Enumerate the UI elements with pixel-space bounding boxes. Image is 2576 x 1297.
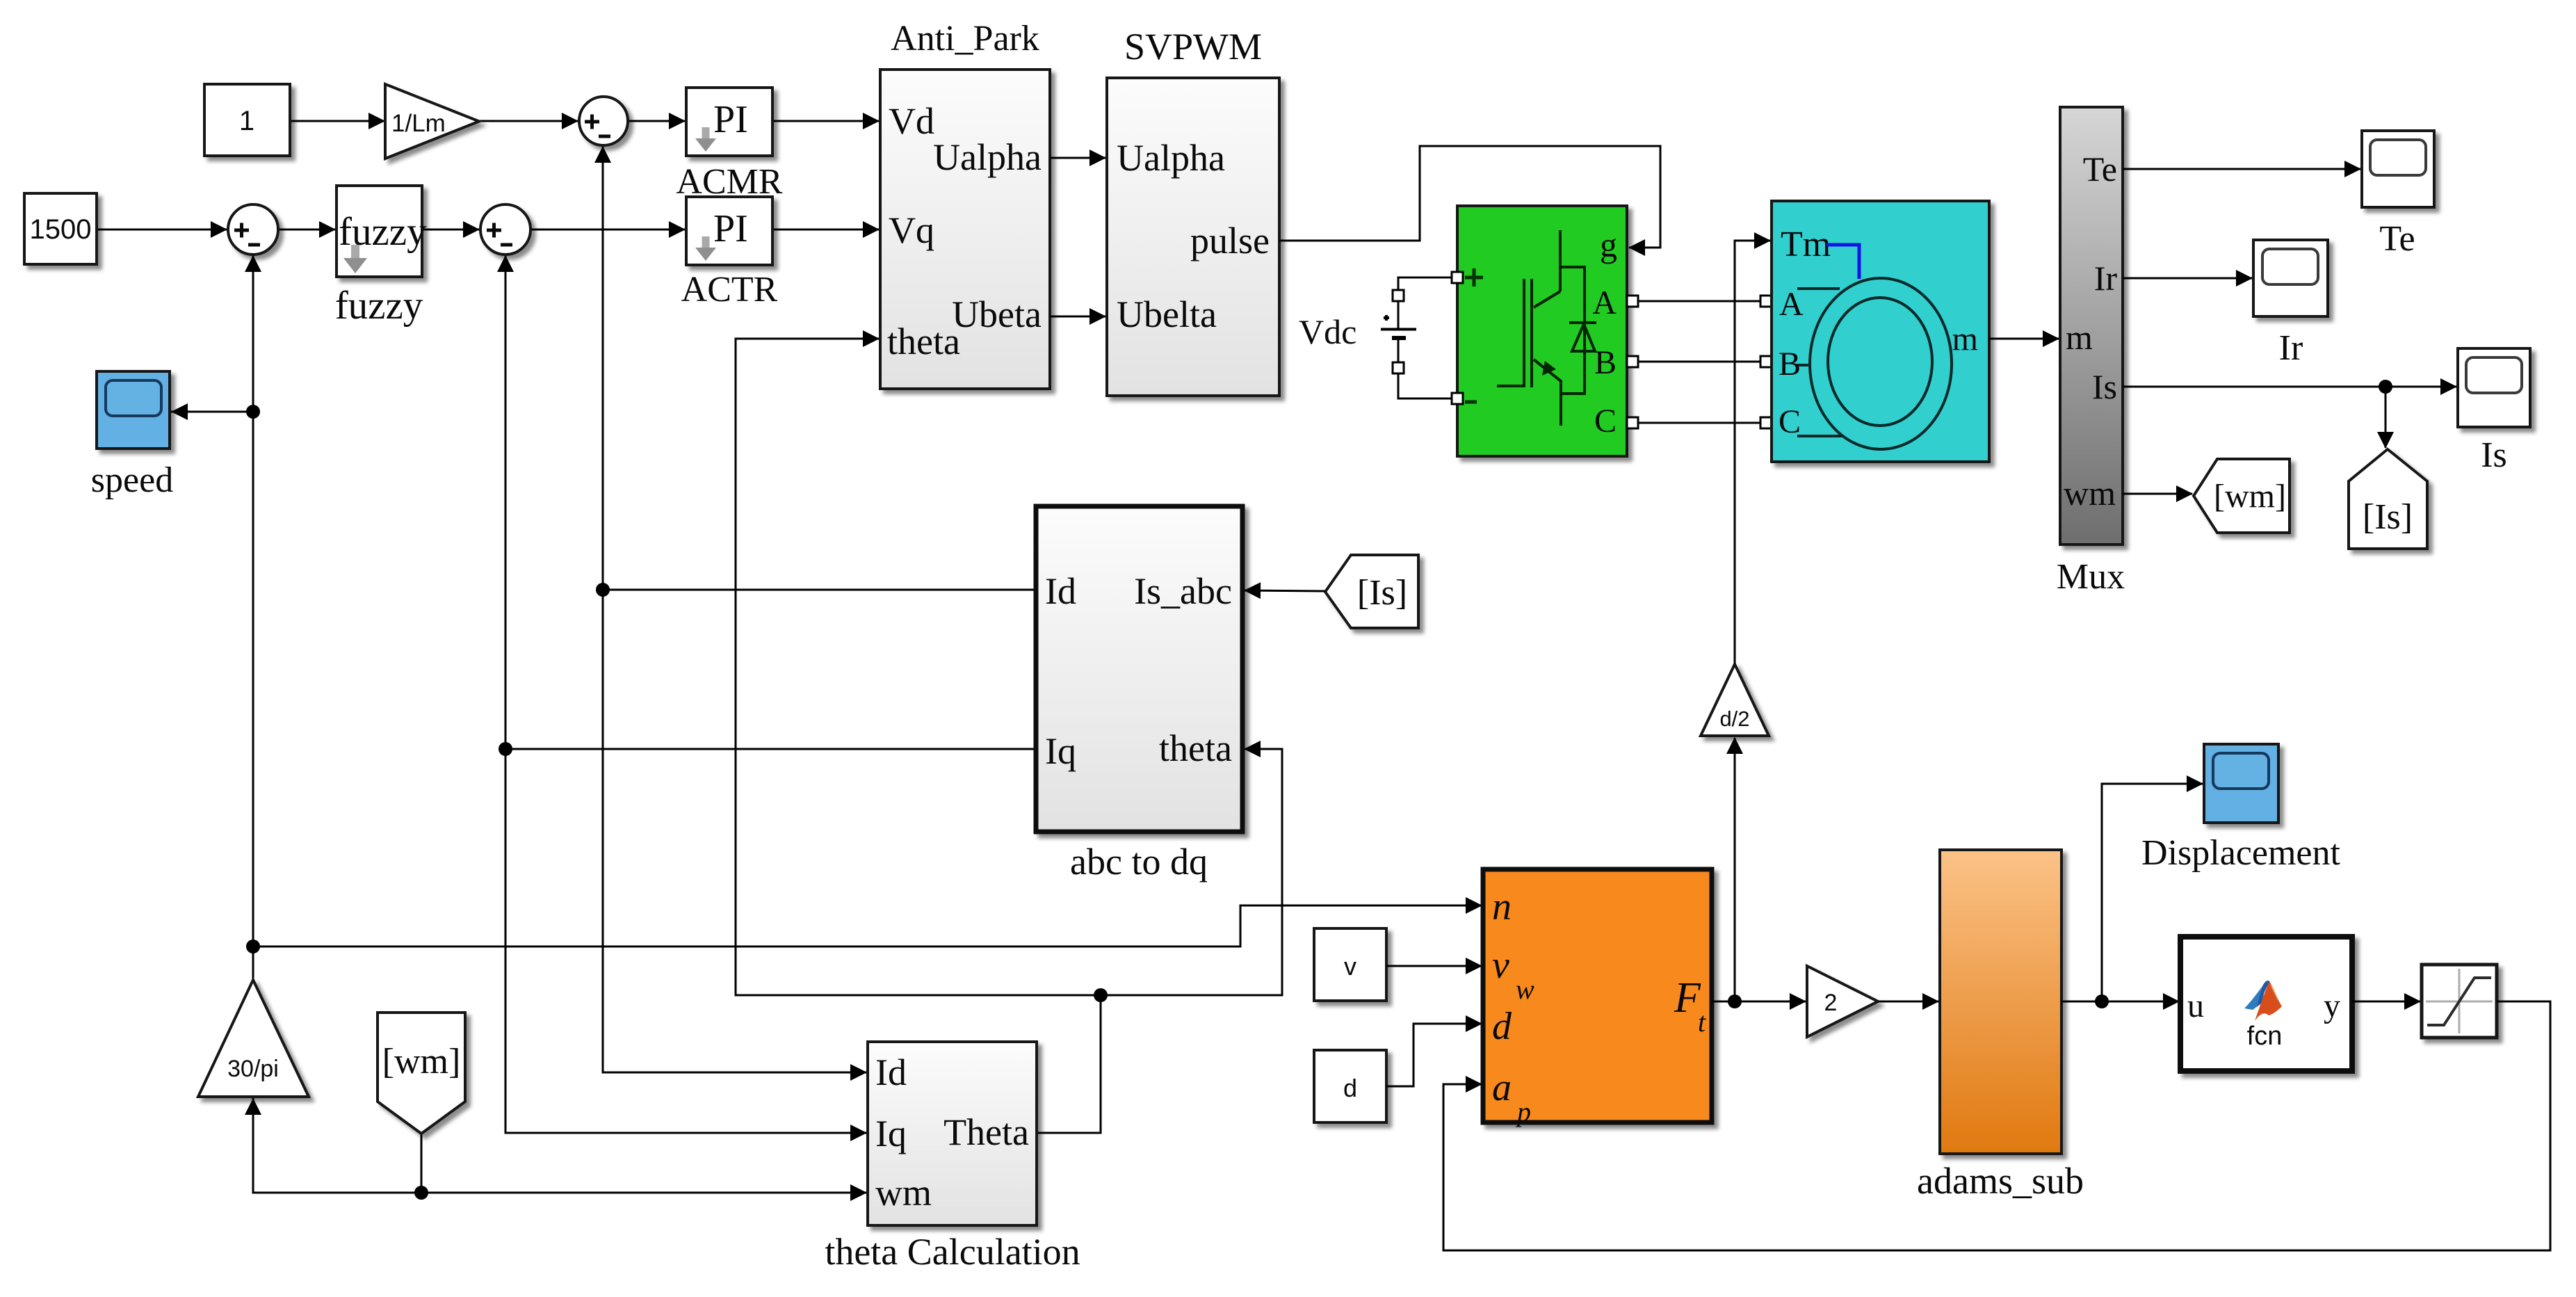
goto tag [Is] bbox=[2349, 449, 2427, 549]
wire motor m to Mux bbox=[1989, 338, 2059, 340]
wire Mux Is to scope Is bbox=[2123, 386, 2456, 388]
port square inverter - bbox=[1452, 393, 1463, 404]
ACMR down-arrow badge bbox=[695, 127, 716, 152]
svg-text:y: y bbox=[2324, 988, 2340, 1024]
wire d to orange d bbox=[1386, 1024, 1482, 1086]
svg-text:speed: speed bbox=[91, 460, 173, 500]
wire fuzzy to sum S3 bbox=[422, 229, 479, 231]
wire inverter A to motor A bbox=[1633, 300, 1760, 303]
IGBT emitter arrow bbox=[1542, 361, 1556, 376]
wire Iq branch to theta Calculation Iq bbox=[505, 1132, 866, 1134]
wire battery - to inverter bbox=[1398, 373, 1457, 398]
wire fcn to saturation bbox=[2352, 1001, 2420, 1003]
MATLAB function block fcn bbox=[2180, 937, 2352, 1071]
port square battery bottom bbox=[1393, 362, 1404, 373]
svg-text:Vq: Vq bbox=[889, 209, 934, 251]
svg-text:PI: PI bbox=[713, 98, 748, 141]
svg-text:Te: Te bbox=[2379, 219, 2415, 259]
wire sum S2 to fuzzy bbox=[280, 229, 335, 231]
svg-text:p: p bbox=[1515, 1096, 1531, 1127]
wire branch up to Displacement scope bbox=[2102, 784, 2203, 1001]
wire gain 1/Lm to sum S1 bbox=[479, 120, 578, 122]
svg-text:adams_sub: adams_sub bbox=[1917, 1160, 2084, 1202]
wire junction to speed scope bbox=[172, 411, 253, 413]
svg-text:B: B bbox=[1779, 346, 1801, 382]
motor phase lead B bbox=[1796, 364, 1808, 366]
svg-text:C: C bbox=[1594, 403, 1617, 440]
gain 1/Lm bbox=[385, 84, 479, 159]
wire d/2 output to motor Tm bbox=[1735, 241, 1770, 664]
svg-text:u: u bbox=[2187, 988, 2204, 1024]
svg-text:Ubelta: Ubelta bbox=[1117, 293, 1217, 335]
wire theta bus to abc_to_dq theta bbox=[1101, 749, 1282, 995]
svg-text:theta Calculation: theta Calculation bbox=[825, 1231, 1080, 1273]
subsystem Anti_Park bbox=[880, 70, 1050, 389]
svg-text:Theta: Theta bbox=[943, 1111, 1029, 1153]
wire wm junction to 30/pi input bbox=[253, 1099, 421, 1193]
sum S2 bbox=[228, 204, 278, 255]
svg-text:d: d bbox=[1492, 1005, 1512, 1048]
scope Displacement bbox=[2204, 744, 2278, 823]
svg-text:Ubeta: Ubeta bbox=[952, 293, 1042, 335]
wire inverter B to motor B bbox=[1633, 361, 1760, 363]
constant block 1500 bbox=[24, 193, 97, 264]
constant d bbox=[1314, 1050, 1386, 1122]
wire from tag [Is] to abc_to_dq Is_abc bbox=[1245, 590, 1325, 591]
from tag [wm] bbox=[378, 1013, 465, 1134]
scope Is bbox=[2458, 348, 2530, 427]
sum S1 bbox=[579, 97, 628, 145]
saturation curve bbox=[2427, 978, 2491, 1025]
svg-text:A: A bbox=[1779, 286, 1804, 323]
port squares motor inputs A B C bbox=[1760, 296, 1772, 307]
wire Mux Te to scope Te bbox=[2123, 168, 2360, 170]
constant v bbox=[1314, 928, 1386, 1001]
svg-text:Vdc: Vdc bbox=[1299, 312, 1356, 351]
battery Vdc bbox=[1381, 301, 1416, 363]
subsystem SVPWM bbox=[1107, 78, 1279, 396]
wire gain 2 to adams_sub bbox=[1878, 1001, 1938, 1003]
node n branch junction bbox=[246, 940, 260, 953]
motor stator outer ring bbox=[1810, 278, 1952, 449]
node wm junction bbox=[414, 1186, 428, 1200]
svg-text:PI: PI bbox=[713, 207, 748, 250]
wire Ft output to gain 2 bbox=[1712, 1001, 1806, 1003]
wire Anti_Park Ubeta to SVPWM bbox=[1050, 316, 1105, 318]
svg-text:abc to dq: abc to dq bbox=[1070, 841, 1208, 883]
svg-text:a: a bbox=[1492, 1066, 1512, 1109]
wire Iq feedback vertical to sum S3 bbox=[505, 256, 507, 1133]
svg-text:B: B bbox=[1594, 344, 1617, 381]
port square inverter + bbox=[1452, 272, 1463, 283]
wire const1 to gain 1/Lm bbox=[290, 120, 384, 122]
motor rotor inner ring bbox=[1828, 298, 1932, 426]
gain 2 bbox=[1807, 966, 1878, 1037]
svg-text:m: m bbox=[2066, 318, 2093, 357]
PI block ACMR bbox=[686, 88, 772, 156]
wire const 1500 to sum S2 bbox=[97, 229, 227, 231]
svg-text:Tm: Tm bbox=[1781, 225, 1831, 264]
svg-text:Id: Id bbox=[875, 1052, 907, 1093]
wire battery + to inverter bbox=[1398, 277, 1457, 291]
svg-text:[wm]: [wm] bbox=[2214, 478, 2286, 515]
svg-text:1/Lm: 1/Lm bbox=[391, 110, 446, 137]
wire speed feedback vertical 30/pi output to sum S2 bbox=[252, 256, 254, 980]
node Id junction bbox=[596, 583, 610, 597]
svg-text:Is: Is bbox=[2092, 367, 2117, 406]
svg-text:Ir: Ir bbox=[2094, 259, 2118, 298]
node displacement junction bbox=[2095, 994, 2109, 1008]
wire Anti_Park Ualpha to SVPWM bbox=[1050, 157, 1105, 159]
wire Id feedback vertical to sum S1 bbox=[602, 147, 604, 1072]
motor block (cyan) bbox=[1772, 201, 1989, 462]
svg-text:g: g bbox=[1600, 225, 1617, 264]
node speed junction bbox=[246, 405, 260, 419]
port squares inverter outputs A B C bbox=[1627, 296, 1638, 307]
svg-text:[wm]: [wm] bbox=[382, 1042, 461, 1081]
svg-text:1500: 1500 bbox=[30, 214, 92, 245]
svg-text:Id: Id bbox=[1045, 570, 1076, 612]
subsystem adams_sub bbox=[1940, 850, 2061, 1154]
node Iq junction bbox=[499, 742, 512, 756]
svg-text:w: w bbox=[1516, 974, 1534, 1005]
gain d/2 bbox=[1701, 664, 1769, 736]
wire speed branch to orange n input bbox=[253, 905, 1482, 946]
subsystem abc to dq bbox=[1036, 506, 1242, 832]
fuzzy block bbox=[337, 186, 422, 277]
svg-text:Is_abc: Is_abc bbox=[1134, 570, 1232, 612]
svg-text:theta: theta bbox=[1159, 727, 1232, 769]
wire abc_to_dq Id output to junction bbox=[603, 589, 1036, 591]
IGBT drawing inside inverter bbox=[1497, 230, 1596, 426]
svg-text:Mux: Mux bbox=[2057, 557, 2125, 597]
svg-text:t: t bbox=[1698, 1006, 1706, 1038]
svg-text:Iq: Iq bbox=[1045, 730, 1076, 772]
wire PI ACTR to Anti_Park Vq bbox=[772, 229, 879, 231]
label + (inverter) bbox=[1465, 268, 1483, 287]
svg-text:fuzzy: fuzzy bbox=[335, 284, 423, 328]
subsystem theta Calculation bbox=[868, 1042, 1037, 1225]
wire sum S1 to PI ACMR bbox=[628, 120, 685, 122]
svg-text:30/pi: 30/pi bbox=[227, 1056, 279, 1082]
svg-text:theta: theta bbox=[887, 321, 960, 362]
node Ft junction bbox=[1728, 994, 1742, 1008]
svg-text:pulse: pulse bbox=[1190, 220, 1270, 261]
PI block ACTR bbox=[686, 197, 772, 265]
port square battery top bbox=[1393, 290, 1404, 301]
svg-text:v: v bbox=[1492, 944, 1509, 987]
svg-text:[Is]: [Is] bbox=[1357, 573, 1407, 613]
svg-text:[Is]: [Is] bbox=[2363, 497, 2413, 537]
node theta junction bbox=[1094, 988, 1108, 1002]
svg-text:fcn: fcn bbox=[2247, 1022, 2283, 1051]
wire abc_to_dq Iq output to junction bbox=[505, 748, 1036, 750]
wire adams_sub to fcn bbox=[2061, 1001, 2179, 1003]
svg-text:m: m bbox=[1952, 321, 1978, 357]
svg-text:Ir: Ir bbox=[2279, 328, 2303, 368]
svg-text:Te: Te bbox=[2083, 150, 2117, 188]
svg-text:ACTR: ACTR bbox=[681, 270, 778, 309]
svg-text:Ualpha: Ualpha bbox=[1117, 137, 1225, 179]
svg-text:n: n bbox=[1492, 885, 1512, 928]
svg-text:d: d bbox=[1343, 1074, 1357, 1102]
Tm blue wire bbox=[1826, 245, 1859, 279]
MATLAB logo bbox=[2244, 981, 2282, 1021]
node Is junction bbox=[2379, 380, 2392, 394]
wire Is branch down to goto [Is] bbox=[2385, 387, 2387, 448]
svg-text:Iq: Iq bbox=[875, 1113, 907, 1154]
wire SVPWM pulse to inverter g bbox=[1279, 146, 1660, 248]
wire saturation feedback loop to orange ap bbox=[1443, 1001, 2550, 1250]
wire [wm] from-tag down to junction bbox=[421, 1134, 423, 1193]
from tag [Is] bbox=[1325, 555, 1418, 628]
motor phase lead C bbox=[1797, 435, 1843, 437]
svg-text:wm: wm bbox=[2064, 474, 2116, 513]
svg-text:2: 2 bbox=[1824, 990, 1838, 1016]
inverter block (green) bbox=[1457, 206, 1627, 456]
svg-text:1: 1 bbox=[239, 106, 254, 136]
wire sum S3 to PI ACTR bbox=[530, 229, 685, 231]
gain 30/pi bbox=[198, 980, 309, 1097]
fuzzy down-arrow badge bbox=[343, 245, 367, 273]
sum S3 bbox=[480, 204, 530, 255]
wire v to orange vw bbox=[1386, 965, 1482, 967]
subsystem Ft (orange) bbox=[1483, 869, 1712, 1122]
scope Te bbox=[2362, 131, 2434, 207]
saturation block bbox=[2422, 965, 2497, 1038]
svg-text:C: C bbox=[1779, 403, 1801, 440]
ACTR down-arrow badge bbox=[695, 236, 716, 261]
wire Mux Ir to scope Ir bbox=[2123, 277, 2252, 280]
wire wm junction to theta Calculation wm bbox=[421, 1192, 866, 1194]
label - (inverter) bbox=[1465, 401, 1477, 404]
wire PI ACMR to Anti_Park Vd bbox=[772, 120, 879, 122]
svg-text:wm: wm bbox=[875, 1172, 932, 1214]
svg-text:Vd: Vd bbox=[889, 100, 934, 142]
svg-text:A: A bbox=[1592, 284, 1617, 321]
constant block 1 bbox=[204, 84, 290, 156]
svg-text:Displacement: Displacement bbox=[2141, 833, 2340, 873]
svg-text:F: F bbox=[1674, 974, 1701, 1022]
motor phase lead A bbox=[1797, 287, 1840, 290]
svg-text:d/2: d/2 bbox=[1719, 707, 1749, 731]
svg-text:Ualpha: Ualpha bbox=[933, 136, 1042, 178]
svg-text:v: v bbox=[1344, 952, 1356, 981]
scope speed bbox=[97, 371, 170, 449]
svg-text:SVPWM: SVPWM bbox=[1124, 26, 1262, 67]
Mux bus selector bbox=[2060, 107, 2123, 545]
wire Id branch to theta Calculation Id bbox=[603, 1072, 866, 1074]
svg-text:Anti_Park: Anti_Park bbox=[891, 19, 1039, 58]
wire theta Calculation Theta output up to theta bus bbox=[1037, 995, 1101, 1133]
wire Ft branch up to d/2 bbox=[1734, 738, 1736, 1001]
goto tag [wm] bbox=[2194, 459, 2290, 533]
wire theta bus to Anti_Park theta bbox=[736, 339, 1101, 995]
wire inverter C to motor C bbox=[1633, 422, 1760, 424]
wire Mux wm to goto [wm] bbox=[2123, 493, 2192, 495]
scope Ir bbox=[2253, 240, 2328, 316]
svg-text:Is: Is bbox=[2481, 435, 2507, 475]
